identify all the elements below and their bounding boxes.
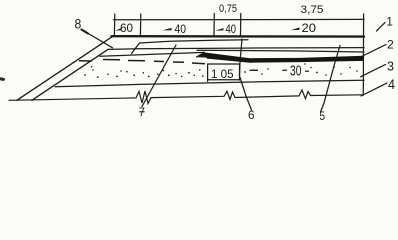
thick base course line	[203, 52, 364, 62]
svg-text:40: 40	[175, 22, 187, 36]
leader for label 4	[361, 83, 387, 96]
cell divider tick x214	[213, 14, 215, 37]
slope wedge cell 20	[291, 28, 300, 31]
svg-text:1: 1	[386, 15, 393, 29]
leader for label 5	[321, 46, 341, 113]
svg-text:1 05: 1 05	[211, 69, 234, 81]
inner slope line	[32, 49, 108, 100]
svg-text:8: 8	[75, 16, 82, 32]
leader for label 6	[240, 39, 252, 110]
svg-text:0,75: 0,75	[219, 3, 237, 15]
svg-text:20: 20	[302, 21, 317, 35]
stipple dots left zone	[84, 66, 201, 78]
svg-text:5: 5	[320, 109, 326, 123]
slope wedge cell 60	[115, 28, 121, 31]
leader for label 7	[142, 45, 176, 107]
dashed hidden edge row (left zone)	[79, 60, 205, 64]
band left edge tick	[113, 14, 115, 36]
kerb box right edge	[239, 64, 241, 80]
dash after 30	[305, 70, 309, 72]
kerb wedge fill	[197, 52, 207, 57]
thin layer line L3	[197, 50, 364, 52]
svg-text:4: 4	[388, 76, 395, 92]
leader for label 3	[361, 65, 386, 77]
cell divider tick x140.5	[139, 14, 141, 36]
dash right of kerb box	[250, 69, 259, 71]
band bottom thick line (road surface edge)	[112, 35, 365, 38]
leader for label 1	[377, 23, 386, 32]
right edge vertical	[362, 14, 364, 95]
step slant at shoulder	[132, 43, 140, 54]
dash before 30	[282, 69, 287, 71]
svg-text:2: 2	[387, 37, 394, 51]
verge line L2R	[108, 48, 364, 50]
dimension band top line	[114, 18, 365, 20]
leader 8 thick start	[82, 30, 89, 34]
slope wedge cell 40b	[216, 28, 224, 31]
kerb box bottom edge	[208, 79, 240, 81]
svg-text:3,75: 3,75	[301, 4, 324, 16]
stipple dots right zone (30 band)	[202, 63, 358, 77]
left edge ground mark	[0, 77, 4, 81]
stipple bottom line	[55, 80, 364, 87]
slope wedge cell 40a	[163, 28, 172, 31]
svg-text:30: 30	[290, 64, 302, 80]
bottom ground line with three break zigzags	[9, 90, 364, 104]
kerb wedge hypotenuse	[197, 52, 205, 57]
svg-text:40: 40	[226, 22, 237, 36]
kerb box left edge	[207, 64, 209, 81]
shoulder surface line LA	[140, 40, 249, 43]
leader for label 8	[82, 30, 113, 48]
svg-text:6: 6	[248, 108, 255, 122]
svg-text:60: 60	[120, 21, 133, 35]
cell divider tick x240.5	[240, 14, 242, 37]
outer slope line	[17, 37, 112, 101]
label 7 crossbar	[139, 111, 144, 113]
kerb box top edge	[208, 63, 240, 65]
leader for label 2	[361, 45, 387, 58]
svg-text:3: 3	[387, 59, 394, 74]
shoulder mid solid line	[100, 52, 204, 56]
